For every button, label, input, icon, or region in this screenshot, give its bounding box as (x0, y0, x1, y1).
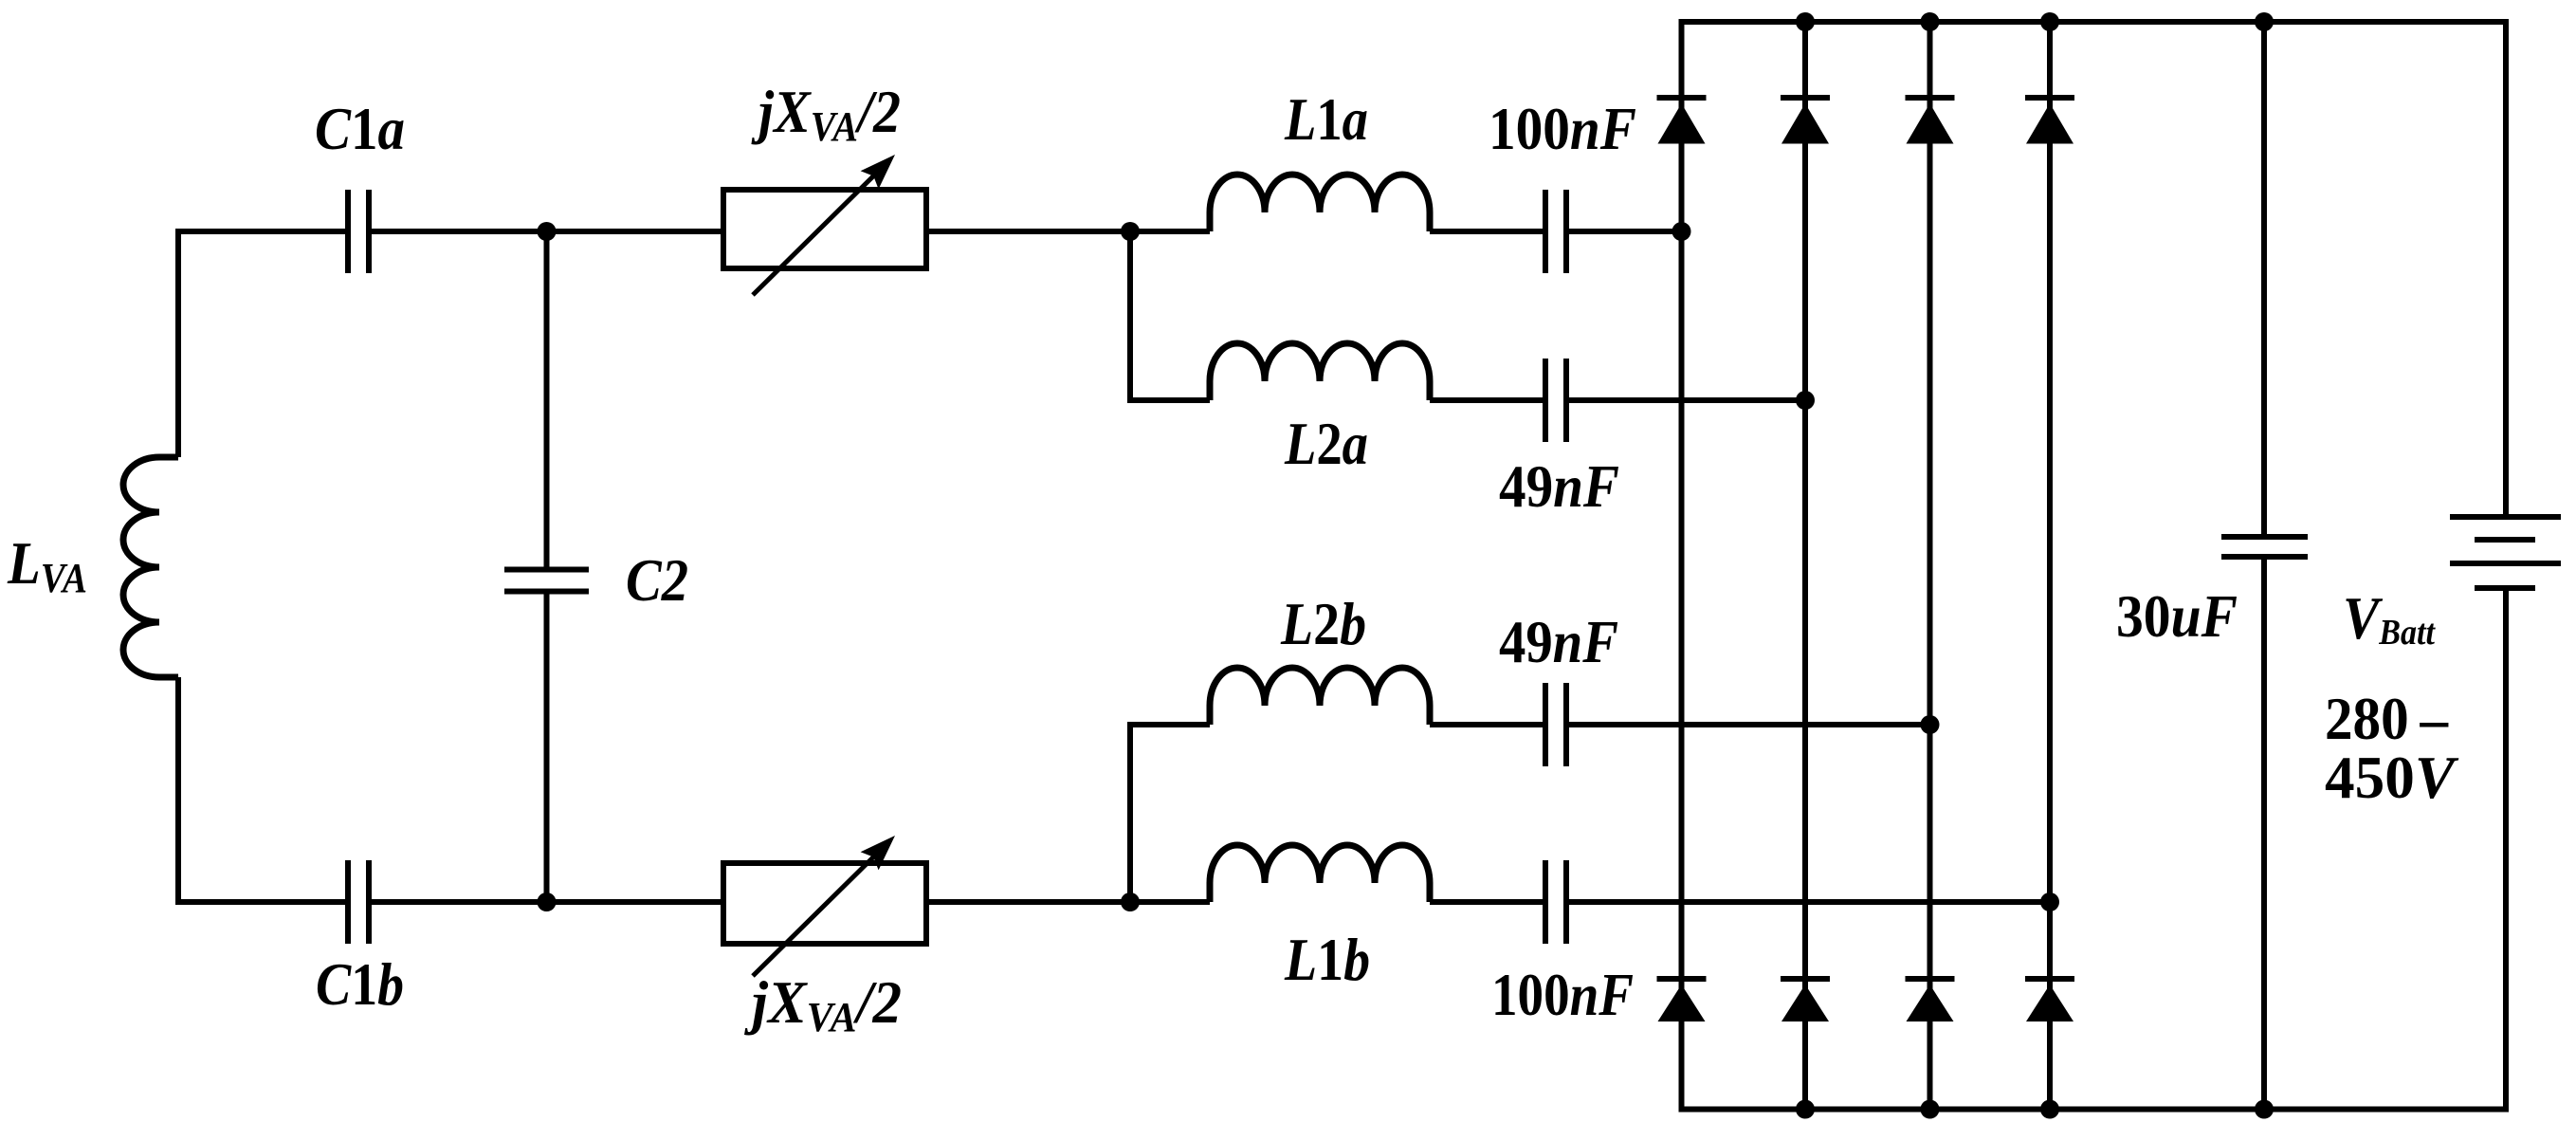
wire L1a to 100nF (1430, 229, 1543, 234)
capacitor 30uF plates (2221, 537, 2308, 557)
bottom rail (1679, 1107, 2510, 1113)
svg-text:C1a: C1a (315, 95, 405, 162)
inductor LVA coil (123, 457, 178, 677)
diode D1 top cathode bar (1657, 95, 1707, 101)
wire box to node B (top) (926, 229, 1210, 234)
inductor L1b (1210, 845, 1430, 902)
svg-text:LVA: LVA (7, 529, 87, 601)
top rail (1679, 19, 2510, 25)
capacitor 100nF bottom plates (1545, 860, 1566, 944)
node top rail leg2 (1796, 12, 1815, 31)
arrow line top box (753, 167, 883, 295)
wire L2a branch left stub (1130, 397, 1210, 403)
diode D1 top triangle (1658, 103, 1706, 144)
diode D7 bottom triangle (1907, 985, 1954, 1021)
wire L2b to 49nF (1430, 722, 1543, 727)
wire L2b branch left stub (1130, 722, 1210, 727)
diode D8 bottom cathode bar (2025, 976, 2074, 982)
svg-text:100nF: 100nF (1489, 95, 1636, 162)
svg-text:VBatt: VBatt (2343, 584, 2436, 653)
node top rail 30uF (2255, 12, 2274, 31)
svg-text:100nF: 100nF (1491, 961, 1634, 1028)
node bottom rail 30uF (2255, 1100, 2274, 1119)
svg-text:L1b: L1b (1284, 926, 1370, 993)
wire bottom main mid (node A2 to box) (372, 899, 723, 905)
wire box to node B2 (bottom) (926, 899, 1210, 905)
inductor L1a (1210, 175, 1430, 231)
capacitor C1b plates (348, 860, 369, 944)
wire C2 lower (544, 594, 550, 902)
node B top split (1121, 222, 1140, 241)
node bottom rail leg3 (1921, 1100, 1940, 1119)
wire 100nF to leg1 (1569, 229, 1682, 234)
diode D4 top cathode bar (2025, 95, 2074, 101)
svg-text:49nF: 49nF (1499, 452, 1619, 520)
battery VBatt bottom lead (2503, 588, 2509, 1113)
wire 49nF to leg2 node (1569, 397, 1805, 403)
rectifier leg 2 (1802, 22, 1808, 1110)
node top rail leg4 (2040, 12, 2059, 31)
node bottom rail leg4 (2040, 1100, 2059, 1119)
node bottom rail leg2 (1796, 1100, 1815, 1119)
diode D6 bottom cathode bar (1781, 976, 1830, 982)
battery VBatt plates (2450, 517, 2561, 588)
node leg4 100nF junction (2040, 893, 2059, 911)
node B bottom split (1121, 893, 1140, 911)
variable reactance box jXVA/2 top (723, 190, 926, 268)
wire node B down to L2a branch (1127, 231, 1133, 403)
diode D6 bottom triangle (1781, 985, 1829, 1021)
capacitor 49nF top plates (1545, 359, 1566, 442)
diode D3 top triangle (1907, 103, 1954, 144)
svg-text:280 –: 280 – (2325, 685, 2449, 752)
diode D5 bottom cathode bar (1657, 976, 1707, 982)
wire bottom main left (178, 677, 345, 902)
diode D4 top triangle (2026, 103, 2074, 144)
diode D2 top triangle (1781, 103, 1829, 144)
wire top main mid (node A to box) (372, 229, 723, 234)
inductor L2b (1210, 668, 1430, 725)
capacitor 30uF top lead (2261, 22, 2267, 534)
wire top main left (178, 231, 345, 457)
arrowhead bottom box (861, 836, 895, 870)
wire C2 upper (544, 231, 550, 567)
node A bottom (538, 893, 557, 911)
svg-text:450V: 450V (2325, 744, 2459, 811)
svg-text:jXVA/2: jXVA/2 (751, 78, 901, 150)
wire node B2 up to L2b branch (1127, 722, 1133, 902)
svg-text:jXVA/2: jXVA/2 (743, 968, 902, 1040)
diode D3 top cathode bar (1906, 95, 1955, 101)
node A top (538, 222, 557, 241)
svg-text:L2b: L2b (1280, 590, 1366, 657)
rectifier leg 4 (2047, 22, 2053, 1110)
svg-text:30uF: 30uF (2116, 582, 2238, 650)
svg-text:L1a: L1a (1284, 85, 1368, 153)
node top rail leg3 (1921, 12, 1940, 31)
capacitor 100nF top plates (1545, 190, 1566, 273)
capacitor 30uF bottom lead (2261, 560, 2267, 1110)
capacitor C1a plates (348, 190, 369, 273)
diode D8 bottom triangle (2026, 985, 2074, 1021)
node leg3 49nF junction (1921, 715, 1940, 734)
capacitor 49nF bottom plates (1545, 683, 1566, 766)
arrowhead top box (861, 155, 895, 189)
node leg2 49nF junction (1796, 391, 1815, 410)
rectifier leg 1 (1679, 22, 1685, 1110)
capacitor C2 plates (504, 570, 589, 592)
wire L2a to 49nF (1430, 397, 1543, 403)
variable reactance box jXVA/2 bottom (723, 863, 926, 944)
svg-text:L2a: L2a (1284, 410, 1368, 477)
battery VBatt top lead (2503, 19, 2509, 517)
rectifier leg 3 (1927, 22, 1933, 1110)
diode D5 bottom triangle (1658, 985, 1706, 1021)
svg-text:C2: C2 (626, 546, 688, 614)
inductor L2a (1210, 343, 1430, 400)
svg-text:49nF: 49nF (1499, 608, 1618, 675)
node leg1 100nF junction (1672, 222, 1691, 241)
arrow line bottom box (753, 848, 883, 976)
diode D2 top cathode bar (1781, 95, 1830, 101)
wire L1b to 100nF (1430, 899, 1543, 905)
diode D7 bottom cathode bar (1906, 976, 1955, 982)
wire 100nF to leg4 node (1569, 899, 2050, 905)
wire 49nF to leg3 node (1569, 722, 1930, 727)
svg-text:C1b: C1b (316, 950, 404, 1018)
